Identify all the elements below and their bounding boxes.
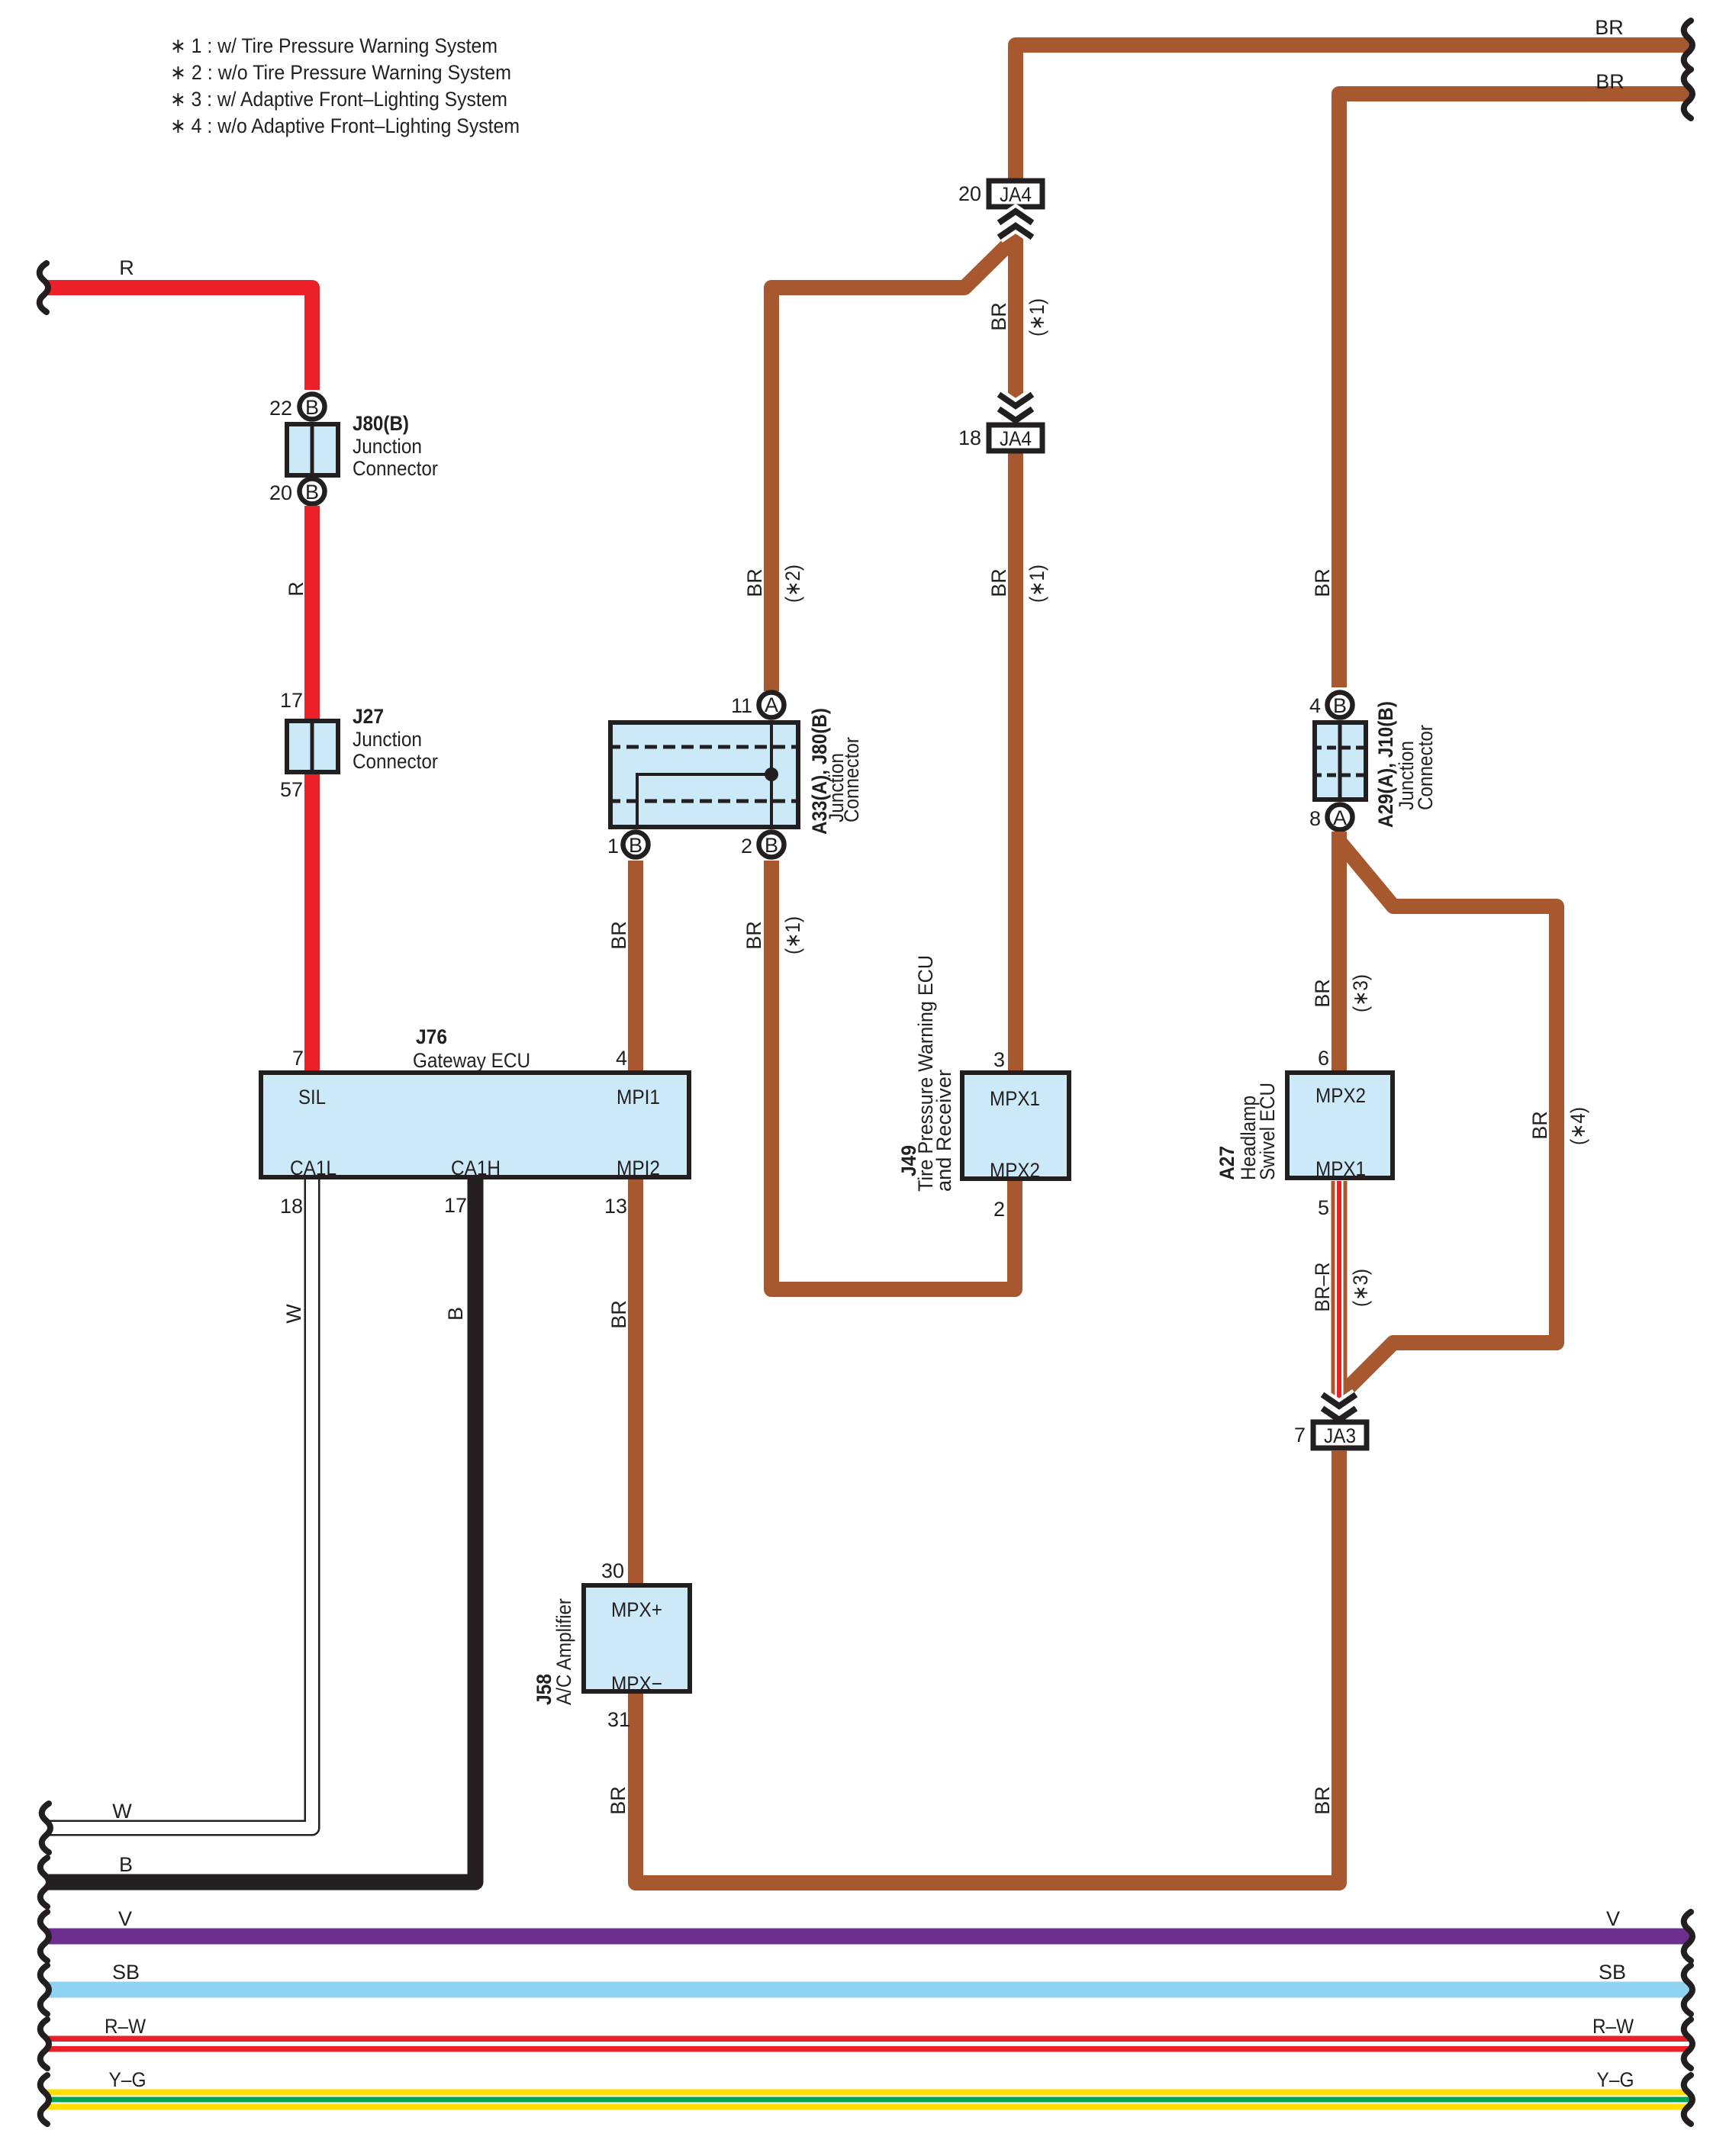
svg-text:MPI1: MPI1 xyxy=(617,1086,660,1109)
svg-text:A27: A27 xyxy=(1216,1146,1238,1180)
svg-text:(∗4): (∗4) xyxy=(1567,1107,1589,1145)
svg-text:B: B xyxy=(305,396,319,419)
squiggle V right end xyxy=(1684,1912,1692,1961)
squiggle Y-G left end xyxy=(40,2075,49,2124)
wire V bus xyxy=(46,1929,1689,1945)
svg-text:MPX2: MPX2 xyxy=(1315,1084,1366,1107)
wire BR MPI2 to J58 MPX+ xyxy=(628,1179,643,1583)
svg-text:Swivel ECU: Swivel ECU xyxy=(1256,1083,1279,1180)
wire BR A29 pin 8 to A27 MPX2 (BR *3) xyxy=(1332,832,1347,1070)
svg-text:57: 57 xyxy=(280,778,303,801)
svg-text:2: 2 xyxy=(993,1198,1005,1221)
svg-text:3: 3 xyxy=(993,1048,1005,1071)
wire BR A33 pin 2 loop to J49 MPX2 (BR *1) xyxy=(771,861,1015,1289)
svg-text:B: B xyxy=(765,834,778,857)
connector JA4 pin 20 box xyxy=(958,181,1042,207)
wire R between J80(B) and J27 xyxy=(304,506,320,719)
svg-text:and Receiver: and Receiver xyxy=(932,1070,955,1192)
label W (vertical) xyxy=(282,1304,305,1324)
connector JA3 pin 7 box xyxy=(1294,1422,1367,1448)
svg-text:∗ 1 : w/ Tire Pressure Warning: ∗ 1 : w/ Tire Pressure Warning System xyxy=(170,34,498,57)
ECU box J49 Tire Pressure Warning ECU and Receiver xyxy=(897,955,1069,1221)
svg-text:6: 6 xyxy=(1318,1047,1329,1070)
svg-text:BR: BR xyxy=(1311,1786,1334,1815)
svg-text:BR: BR xyxy=(1595,16,1624,39)
legend note *1..*4 xyxy=(170,34,520,137)
squiggle W left end xyxy=(42,1804,50,1852)
svg-text:A: A xyxy=(1333,806,1347,829)
svg-text:R–W: R–W xyxy=(1592,2015,1634,2038)
svg-text:V: V xyxy=(118,1907,132,1930)
svg-text:20: 20 xyxy=(958,182,981,205)
ECU box J76 Gateway ECU xyxy=(261,1025,689,1218)
svg-text:CA1H: CA1H xyxy=(451,1157,501,1179)
svg-text:B: B xyxy=(444,1307,467,1321)
svg-text:4: 4 xyxy=(616,1047,627,1070)
svg-text:JA4: JA4 xyxy=(1000,427,1032,450)
svg-text:Junction: Junction xyxy=(353,728,422,751)
svg-text:SIL: SIL xyxy=(298,1086,326,1109)
svg-text:(∗1): (∗1) xyxy=(1026,298,1048,336)
wire R from left to J80(B) xyxy=(45,288,312,390)
wire BR top 2 to A29 junction connector xyxy=(1339,94,1689,687)
svg-text:22: 22 xyxy=(269,397,292,420)
label BR (A29 drop wire) xyxy=(1311,568,1334,597)
svg-text:JA3: JA3 xyxy=(1324,1424,1356,1447)
svg-text:BR: BR xyxy=(987,568,1010,597)
svg-text:(∗1): (∗1) xyxy=(1026,565,1048,603)
wire B from CA1H to left xyxy=(46,1179,475,1882)
svg-text:17: 17 xyxy=(444,1194,467,1217)
wire Y-G bus xyxy=(46,2090,1689,2110)
svg-text:7: 7 xyxy=(1294,1424,1306,1446)
wire W from CA1L to left xyxy=(44,1179,312,1828)
svg-text:8: 8 xyxy=(1309,807,1321,830)
svg-text:11: 11 xyxy=(731,694,752,717)
svg-text:BR: BR xyxy=(1311,979,1334,1008)
svg-text:A29(A), J10(B): A29(A), J10(B) xyxy=(1374,701,1397,828)
squiggle SB right end xyxy=(1684,1965,1692,2014)
svg-text:Connector: Connector xyxy=(1414,725,1437,810)
svg-text:B: B xyxy=(1333,694,1347,717)
label BR (MPI1 wire) xyxy=(607,921,630,950)
svg-text:(∗3): (∗3) xyxy=(1349,974,1372,1012)
svg-text:BR: BR xyxy=(742,921,765,950)
arrow down into JA4 18 xyxy=(999,394,1032,420)
svg-text:B: B xyxy=(305,481,319,504)
svg-text:R–W: R–W xyxy=(105,2015,146,2038)
label BR (*4) xyxy=(1528,1107,1589,1145)
wire BR top to JA4 pin 20 xyxy=(1016,45,1689,179)
svg-text:BR: BR xyxy=(987,302,1010,331)
arrow up into JA4 20 xyxy=(999,211,1032,237)
svg-text:MPX+: MPX+ xyxy=(611,1598,662,1621)
squiggle Y-G right end xyxy=(1684,2075,1692,2124)
squiggle BR top right end 2 xyxy=(1684,69,1692,118)
junction connector J80(B) xyxy=(269,394,438,505)
connector JA4 pin 18 box xyxy=(958,425,1042,451)
svg-text:Y–G: Y–G xyxy=(1597,2068,1634,2091)
svg-text:13: 13 xyxy=(604,1195,627,1218)
junction connector J27 xyxy=(287,705,438,774)
wire R-W bus xyxy=(46,2036,1689,2052)
svg-text:∗ 2 : w/o Tire Pressure Warnin: ∗ 2 : w/o Tire Pressure Warning System xyxy=(170,61,511,84)
svg-text:BR: BR xyxy=(607,921,630,950)
svg-text:R: R xyxy=(285,581,308,597)
svg-text:BR: BR xyxy=(607,1300,630,1329)
wire BR from JA3 down and across to J58 MPX- xyxy=(636,1450,1339,1883)
label BR (*1) upper xyxy=(987,298,1048,336)
svg-text:Connector: Connector xyxy=(840,737,863,822)
svg-text:17: 17 xyxy=(280,689,303,712)
svg-text:J80(B): J80(B) xyxy=(353,412,409,435)
label B (vertical) xyxy=(444,1307,467,1321)
svg-text:∗ 4 : w/o Adaptive Front–Light: ∗ 4 : w/o Adaptive Front–Lighting System xyxy=(170,114,520,137)
svg-text:(∗2): (∗2) xyxy=(781,565,804,603)
svg-text:Y–G: Y–G xyxy=(109,2068,147,2091)
svg-text:Gateway ECU: Gateway ECU xyxy=(413,1049,530,1072)
squiggle R left end xyxy=(40,263,48,312)
label BR (*2) xyxy=(743,565,804,603)
squiggle R-W right end xyxy=(1684,2019,1692,2068)
svg-text:MPX−: MPX− xyxy=(611,1672,662,1695)
svg-text:A: A xyxy=(765,693,778,716)
svg-text:CA1L: CA1L xyxy=(290,1157,337,1179)
label BR (*1) on pin2 wire xyxy=(742,916,804,954)
svg-text:A/C Amplifier: A/C Amplifier xyxy=(552,1598,575,1705)
wire BR-R from A27 MPX1 to JA3 (BR-R *3) xyxy=(1332,1181,1348,1416)
svg-text:J76: J76 xyxy=(416,1025,447,1048)
label BR (J58 lower wire) xyxy=(607,1786,630,1815)
svg-text:BR: BR xyxy=(1596,70,1625,93)
svg-text:Connector: Connector xyxy=(353,750,438,773)
svg-text:B: B xyxy=(629,834,642,857)
junction connector A33(A), J80(B) xyxy=(607,693,863,858)
svg-text:BR–R: BR–R xyxy=(1311,1263,1334,1312)
wire SB bus xyxy=(46,1982,1689,1998)
squiggle V left end xyxy=(40,1912,49,1961)
svg-text:MPX2: MPX2 xyxy=(990,1159,1040,1182)
svg-text:J27: J27 xyxy=(353,705,384,728)
svg-text:18: 18 xyxy=(958,426,981,449)
svg-text:V: V xyxy=(1606,1907,1620,1930)
svg-text:∗ 3 : w/ Adaptive Front–Lighti: ∗ 3 : w/ Adaptive Front–Lighting System xyxy=(170,88,507,111)
svg-text:18: 18 xyxy=(280,1195,303,1218)
svg-text:R: R xyxy=(119,256,134,279)
label BR-R (*3) xyxy=(1311,1263,1372,1312)
squiggle B left end xyxy=(40,1858,49,1907)
svg-text:BR: BR xyxy=(1311,568,1334,597)
svg-text:(∗3): (∗3) xyxy=(1349,1269,1372,1307)
squiggle SB left end xyxy=(40,1965,49,2014)
svg-text:MPI2: MPI2 xyxy=(617,1157,660,1179)
ECU box J58 A/C Amplifier xyxy=(533,1585,690,1705)
svg-text:SB: SB xyxy=(112,1961,140,1984)
svg-text:SB: SB xyxy=(1599,1961,1626,1984)
svg-text:B: B xyxy=(119,1853,133,1876)
wire BR MPI1 to A33 pin 1 xyxy=(628,861,643,1070)
squiggle BR top right end 1 xyxy=(1684,21,1692,69)
svg-text:W: W xyxy=(112,1800,132,1823)
svg-text:W: W xyxy=(282,1304,305,1324)
svg-text:MPX1: MPX1 xyxy=(1315,1157,1366,1180)
wire R from J27 to gateway ECU pin 7 xyxy=(304,774,320,1070)
wire BR JA4 20 to 18 and down to J49 MPX1 (BR *1) xyxy=(1008,210,1023,426)
svg-text:7: 7 xyxy=(292,1047,304,1070)
junction connector A29(A), J10(B) xyxy=(1309,693,1437,831)
label BR (JA3 lower wire) xyxy=(1311,1786,1334,1815)
svg-text:4: 4 xyxy=(1309,694,1321,717)
wire BR from A33 pin 11 up to JA4 (BR *2) xyxy=(771,237,1016,691)
wire BR bypass branch (BR *4) xyxy=(1341,843,1557,1395)
svg-text:20: 20 xyxy=(269,481,292,504)
svg-text:Connector: Connector xyxy=(353,457,438,480)
label BR (*1) lower xyxy=(987,565,1048,603)
label R (vertical) xyxy=(285,581,308,597)
svg-text:1: 1 xyxy=(607,835,619,858)
svg-text:MPX1: MPX1 xyxy=(990,1087,1040,1110)
svg-text:Junction: Junction xyxy=(353,435,422,458)
label BR (*3) xyxy=(1311,974,1372,1012)
label BR (MPI2 wire) xyxy=(607,1300,630,1329)
svg-text:30: 30 xyxy=(601,1559,624,1582)
svg-text:BR: BR xyxy=(1528,1111,1551,1140)
squiggle R-W left end xyxy=(40,2019,49,2068)
svg-text:(∗1): (∗1) xyxy=(781,916,804,954)
svg-text:5: 5 xyxy=(1318,1196,1329,1219)
arrow down into JA3 xyxy=(1322,1395,1356,1420)
svg-text:JA4: JA4 xyxy=(1000,183,1032,206)
svg-text:BR: BR xyxy=(607,1786,630,1815)
ECU box A27 Headlamp Swivel ECU xyxy=(1216,1047,1393,1219)
svg-text:31: 31 xyxy=(607,1708,630,1731)
svg-text:2: 2 xyxy=(741,835,752,858)
svg-text:BR: BR xyxy=(743,568,766,597)
